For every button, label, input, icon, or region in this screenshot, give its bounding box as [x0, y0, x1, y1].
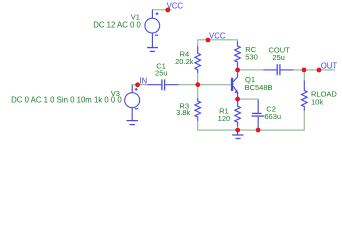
svg-text:10k: 10k [311, 98, 323, 107]
ground (below R1) [232, 130, 243, 138]
node emitter junction [235, 97, 240, 102]
node VCC [167, 2, 184, 11]
resistor R4 [195, 46, 201, 73]
label C2 [264, 104, 281, 121]
node RLOAD junction [302, 68, 307, 73]
svg-text:BC548B: BC548B [245, 83, 273, 92]
svg-text:120: 120 [218, 114, 231, 123]
label R4 [175, 50, 194, 66]
label COUT [268, 46, 290, 62]
svg-text:IN: IN [139, 76, 147, 85]
node VCC (stub end) [165, 8, 170, 13]
capacitor COUT [264, 64, 294, 75]
node OUT [321, 62, 338, 71]
label V1 [93, 13, 141, 30]
svg-text:3.8k: 3.8k [176, 108, 190, 117]
wire collector to COUT [238, 69, 264, 71]
node IN [139, 76, 147, 85]
label C1 [155, 61, 168, 77]
resistor R3 [195, 98, 201, 121]
label Q1 [245, 75, 273, 92]
voltage source V1 [145, 9, 160, 47]
wire base node to Q1 [198, 84, 231, 86]
wire VCC rail [198, 40, 238, 47]
wire R4 to base node [197, 73, 199, 84]
node R1 bottom junction [235, 128, 240, 133]
transistor Q1 [232, 70, 238, 99]
wire emitter to C2 [238, 99, 259, 100]
ground (below V3) [127, 121, 139, 125]
ground (below V1) [147, 48, 158, 52]
node C2 bottom junction [256, 128, 261, 133]
label V3 [11, 89, 122, 104]
wire RLOAD to bottom rail [303, 70, 304, 130]
svg-text:DC 12 AC 0 0: DC 12 AC 0 0 [93, 20, 141, 29]
label R1 [218, 106, 231, 122]
svg-text:25u: 25u [155, 68, 168, 77]
wire V1 top to VCC stub [152, 9, 171, 11]
wire R1 to bottom rail [237, 127, 239, 131]
voltage source V3 [125, 84, 140, 120]
capacitor C1 [147, 79, 179, 90]
wire R3 to bottom rail [198, 85, 238, 130]
capacitor C2 [252, 100, 265, 130]
wire bottom rail [238, 129, 305, 131]
wire V3 to C1 [132, 84, 147, 86]
svg-text:25u: 25u [272, 53, 285, 62]
node collector junction [235, 68, 240, 73]
node IN [135, 82, 140, 87]
label RC [245, 45, 258, 62]
wire COUT to OUT [294, 69, 336, 71]
svg-text:20.2k: 20.2k [175, 57, 194, 66]
wire C1 to base node [179, 84, 198, 86]
svg-text:DC 0 AC 1 0 Sin 0 10m 1k 0 0 0: DC 0 AC 1 0 Sin 0 10m 1k 0 0 0 [11, 95, 122, 104]
node VCC (rail label) [206, 38, 211, 43]
resistor RLOAD [302, 81, 308, 112]
label RLOAD [311, 90, 337, 107]
node base junction [195, 82, 200, 87]
svg-text:OUT: OUT [321, 62, 338, 71]
node VCC (rail label) [209, 32, 226, 41]
svg-text:VCC: VCC [209, 32, 226, 41]
label R3 [176, 102, 190, 117]
svg-text:663u: 663u [264, 112, 281, 121]
resistor R1 [235, 100, 241, 127]
resistor RC [235, 42, 241, 70]
node OUT [317, 68, 322, 73]
svg-text:530: 530 [245, 52, 258, 61]
